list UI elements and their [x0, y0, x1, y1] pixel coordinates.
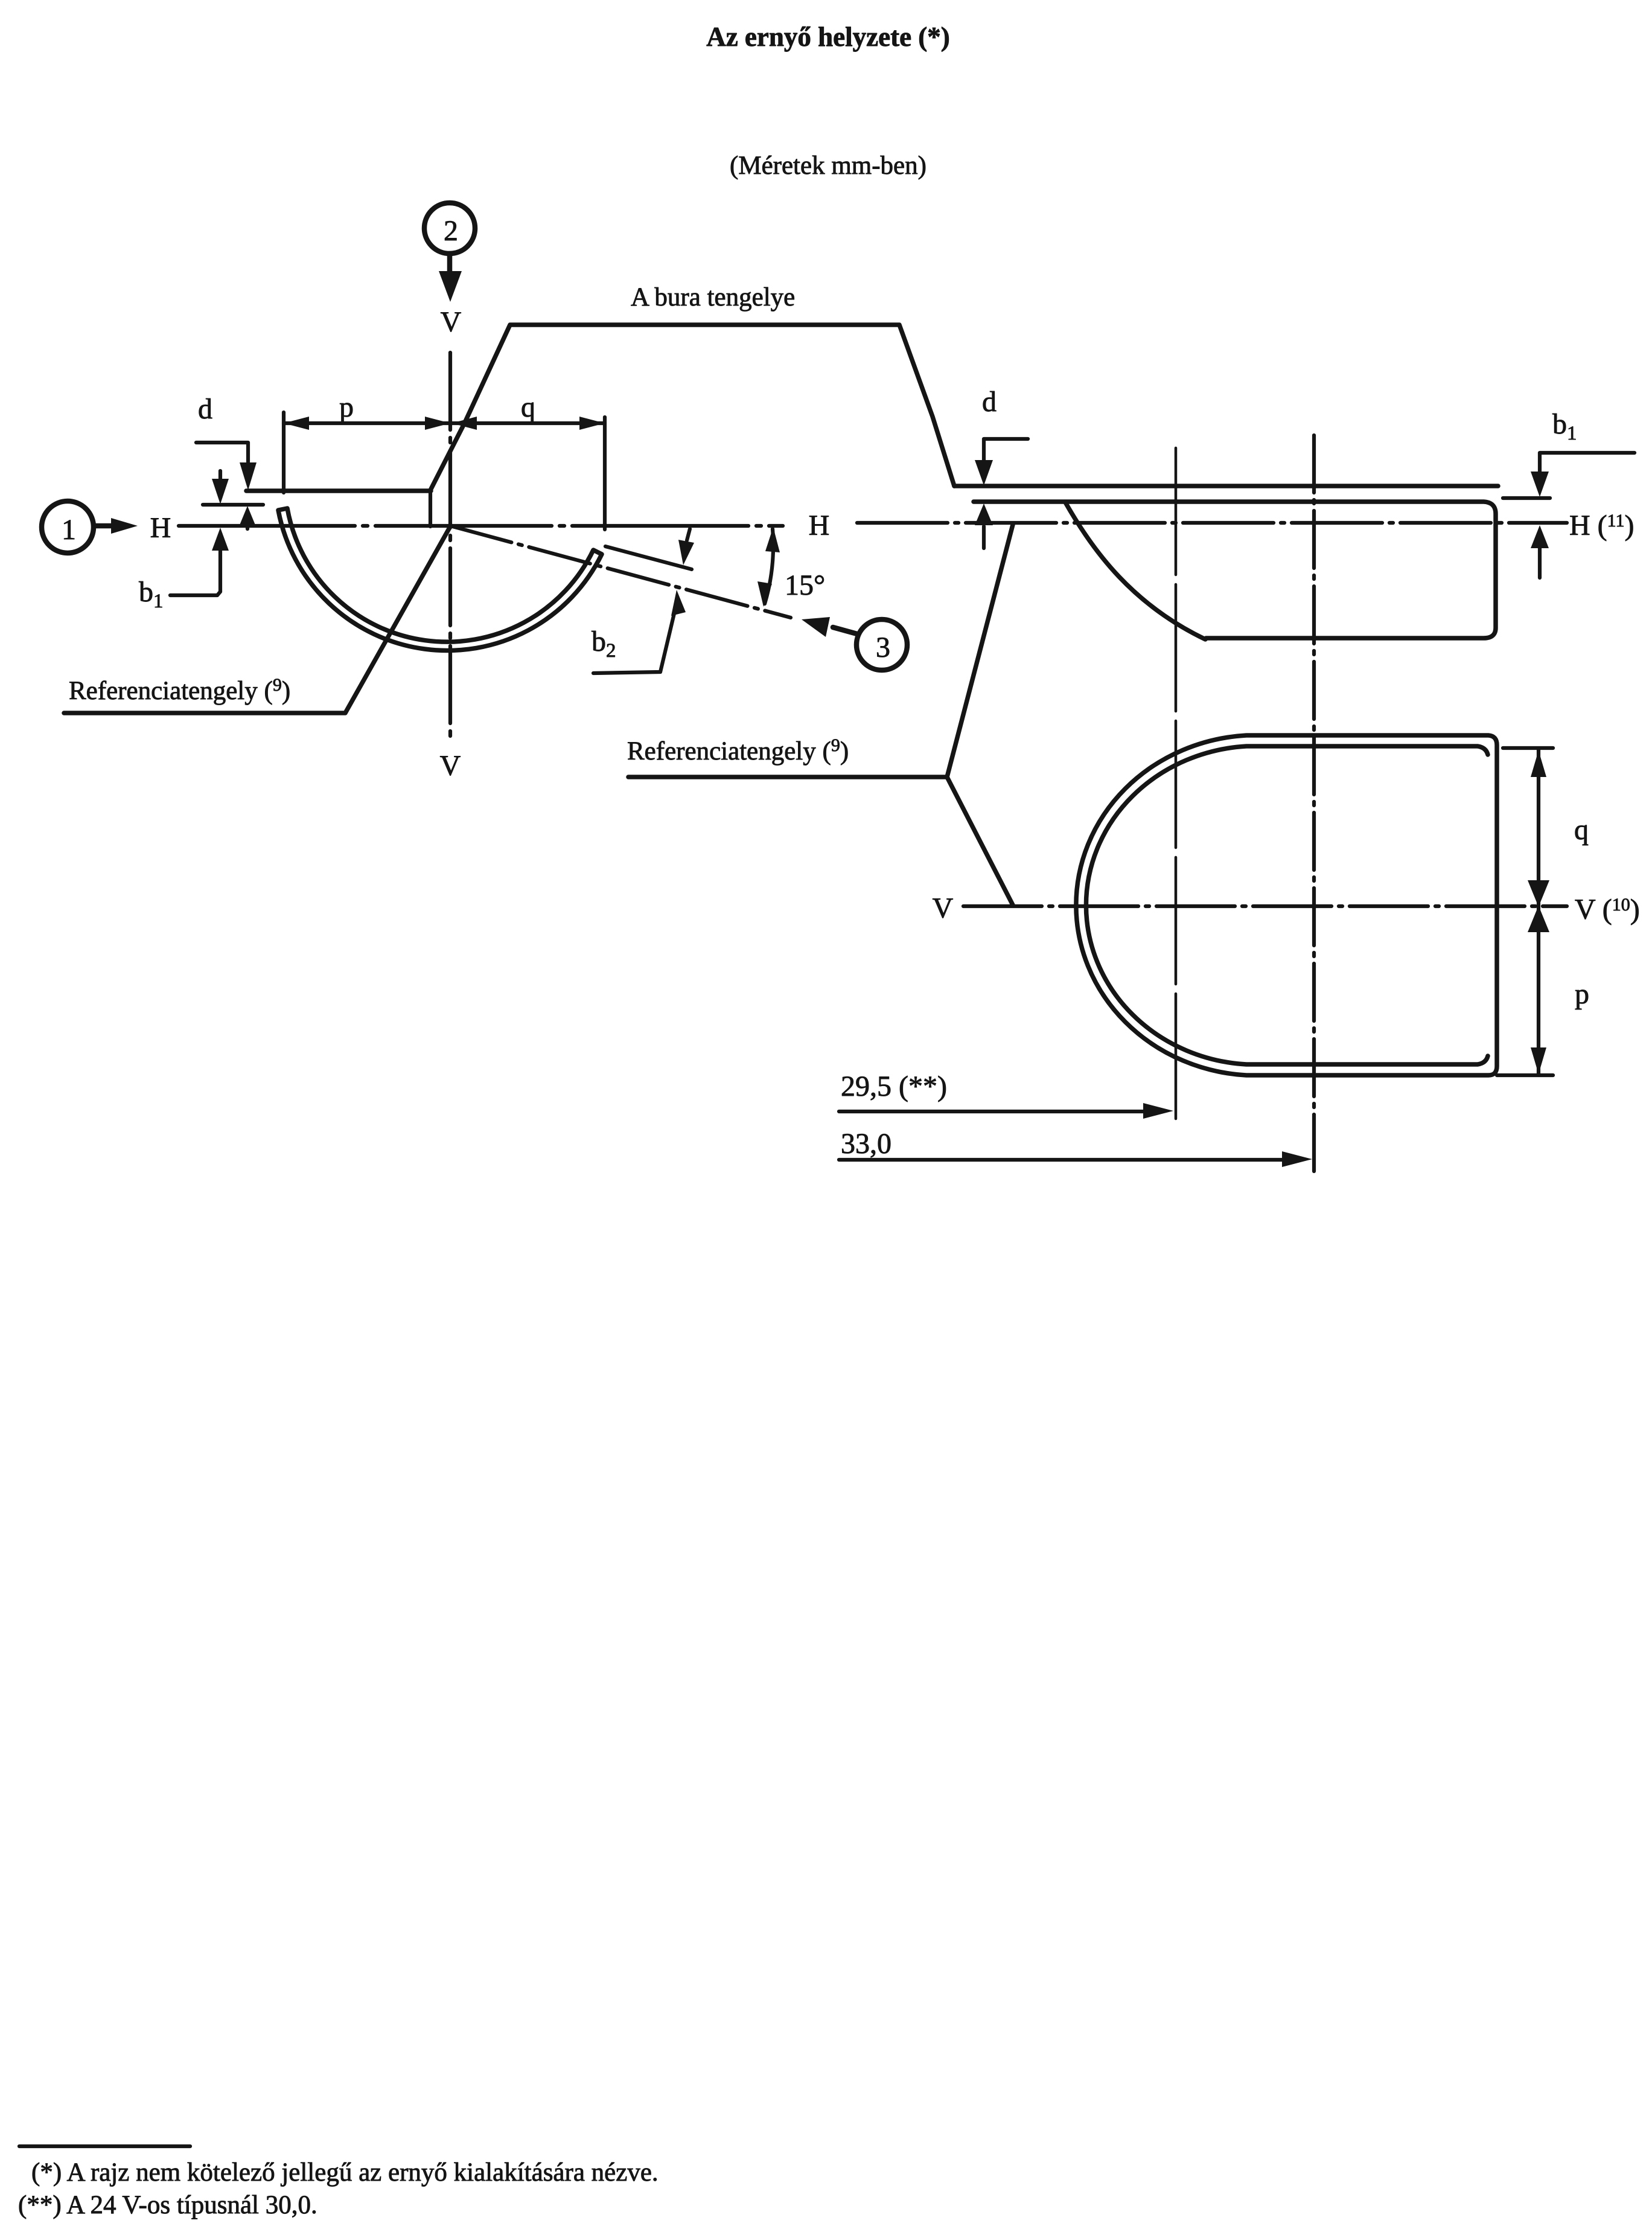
svg-text:3: 3 [876, 632, 890, 664]
dimension b1 arrows (right view) [1531, 472, 1549, 578]
wire: H axis (right view) [857, 521, 1567, 525]
tick line for b1 (right view) [1503, 496, 1550, 500]
extension line 29.5 plane (both right views) [1175, 448, 1178, 1119]
node H (right label of left view) [809, 510, 830, 542]
screen edge line at 15 deg (left view) [605, 546, 692, 569]
label 33,0 [841, 1128, 891, 1160]
view marker circle 1 [42, 501, 94, 553]
center line 33.0 plane (dash-dot, both right views) [1312, 435, 1316, 1171]
label b2 [592, 625, 616, 662]
label b1 (left view) [139, 576, 164, 612]
title: Az ernyő helyzete (*) [706, 22, 950, 52]
dimension line 33,0 [839, 1151, 1312, 1167]
label q (bottom view) [1574, 814, 1589, 846]
svg-text:1: 1 [62, 514, 76, 546]
svg-text:33,0: 33,0 [841, 1128, 891, 1160]
screen lip right edge (left view) [429, 491, 432, 526]
angular dimension arrows between H and 15 deg line [757, 527, 780, 607]
extension line for p (x=470) [282, 412, 285, 493]
svg-text:(*) A rajz nem kötelező jelleg: (*) A rajz nem kötelező jellegű az ernyő… [31, 2158, 659, 2187]
dimension b2 lower arrow and leader [593, 590, 686, 673]
leader for b1 (right view) [1540, 453, 1634, 472]
dimension b1 arrows (left view) [212, 471, 229, 592]
wire: V axis (bottom view) [963, 904, 1567, 908]
node V (left label, bottom view) [933, 892, 954, 924]
view marker circle 3 [856, 619, 907, 670]
label 29,5 (**) [841, 1070, 947, 1102]
screen bowl (double arc, left view) [278, 508, 602, 650]
leader for d (right view) [984, 439, 1028, 460]
screen lip top line (left view) [246, 488, 431, 493]
dimension b2 upper arrow [678, 529, 694, 565]
view direction arrow 2 [439, 254, 462, 302]
leader line under A bura tengelye [431, 325, 954, 489]
svg-text:p: p [1575, 978, 1589, 1010]
wire: 15 degree axis (dash-dot) [450, 526, 791, 618]
leader for d (left view) [196, 443, 248, 462]
view direction arrow 3 [802, 617, 857, 637]
footnote 1 [31, 2158, 659, 2187]
label p (left view) [339, 391, 354, 423]
label Referenciatengely (9) middle [627, 735, 849, 766]
label 15 degrees [785, 569, 825, 601]
svg-text:q: q [521, 391, 535, 423]
wire: V axis (left view) [448, 353, 452, 743]
dimension line q/p (bottom view) [1528, 749, 1549, 1074]
svg-text:(Méretek mm-ben): (Méretek mm-ben) [730, 152, 926, 180]
footnote rule [19, 2144, 190, 2148]
svg-text:Az ernyő helyzete (*): Az ernyő helyzete (*) [706, 22, 950, 52]
right view: screen left arc [1065, 502, 1205, 639]
bottom view: screen outline outer [1076, 735, 1497, 1075]
node V (bottom label, left view) [440, 750, 461, 782]
leader for middle Referenciatengely (Y shape) [628, 525, 1013, 905]
right view: screen top line [954, 484, 1498, 488]
svg-text:(**) A 24 V-os típusnál 30,0.: (**) A 24 V-os típusnál 30,0. [18, 2191, 317, 2219]
label H (11) [1569, 510, 1634, 542]
right view: screen second line with right corner [974, 502, 1496, 638]
svg-text:V: V [441, 306, 462, 338]
label V (10) [1575, 894, 1640, 926]
dimension d arrows (right view) [975, 460, 993, 548]
label p (bottom view) [1575, 978, 1589, 1010]
node H (left label, left view) [150, 512, 171, 544]
dimension p line [284, 417, 450, 430]
svg-text:H: H [150, 512, 171, 544]
label d (right view) [982, 386, 997, 418]
svg-text:H: H [809, 510, 830, 542]
tick top for q dimension [1503, 746, 1553, 750]
leader for b1 (left view) [170, 592, 220, 595]
label d (left view) [198, 393, 212, 425]
view marker circle 2 [424, 203, 475, 254]
svg-text:d: d [198, 393, 212, 425]
leader for left Referenciatengely [64, 526, 450, 713]
label b1 (right view) [1552, 408, 1577, 444]
svg-text:p: p [339, 391, 354, 423]
screen lip lower tick line (left view) [203, 503, 263, 507]
label Referenciatengely (9) left [69, 675, 290, 705]
svg-text:Referenciatengely (9): Referenciatengely (9) [627, 735, 849, 766]
svg-text:A bura tengelye: A bura tengelye [631, 283, 795, 312]
svg-text:V: V [440, 750, 461, 782]
bottom view: screen outline inner [1086, 746, 1488, 1064]
svg-text:q: q [1574, 814, 1589, 846]
node V (top label, left view) [441, 306, 462, 338]
view direction arrow 1 [94, 518, 138, 534]
subtitle: (Méretek mm-ben) [730, 152, 926, 180]
dimension line 29,5 [839, 1103, 1173, 1119]
label q (left view) [521, 391, 535, 423]
svg-text:V: V [933, 892, 954, 924]
footnote 2 [18, 2191, 317, 2219]
label: A bura tengelye [631, 283, 795, 312]
dimension d arrows (left view) [239, 462, 257, 529]
svg-text:29,5 (**): 29,5 (**) [841, 1070, 947, 1102]
svg-text:d: d [982, 386, 997, 418]
svg-text:H (11): H (11) [1569, 510, 1634, 542]
svg-text:15°: 15° [785, 569, 825, 601]
dimension q line [450, 417, 605, 430]
extension line for q (x=1002) [603, 417, 607, 529]
svg-text:V (10): V (10) [1575, 894, 1640, 926]
svg-text:Referenciatengely (9): Referenciatengely (9) [69, 675, 290, 705]
tick bottom for p dimension [1497, 1073, 1553, 1077]
svg-text:2: 2 [444, 215, 458, 247]
wire: H axis (left view) [179, 524, 783, 528]
